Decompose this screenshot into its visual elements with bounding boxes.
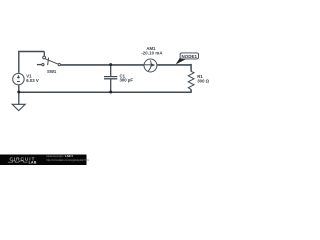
ground xyxy=(12,92,25,110)
wire top middle xyxy=(61,64,144,66)
wire V1 bottom xyxy=(18,85,20,92)
junction node at ground xyxy=(17,91,20,94)
watermark bar xyxy=(0,155,87,166)
junction node at capacitor top xyxy=(109,63,112,66)
wire switch feed vertical xyxy=(43,52,45,56)
wire top-left horizontal xyxy=(18,51,44,53)
capacitor C1 xyxy=(104,65,117,92)
svg-text:SW1: SW1 xyxy=(47,69,57,74)
ammeter AM1 xyxy=(144,59,157,72)
svg-text:6.03 V: 6.03 V xyxy=(26,78,39,83)
svg-text:300 µF: 300 µF xyxy=(120,77,134,82)
svg-text:-20.10 mA: -20.10 mA xyxy=(141,50,162,55)
svg-text:300 Ω: 300 Ω xyxy=(197,79,209,84)
svg-text:NODE1: NODE1 xyxy=(182,54,198,59)
svg-text:LAB: LAB xyxy=(29,160,37,164)
wire bottom horizontal xyxy=(19,91,192,93)
node flag NODE1 pointer xyxy=(176,58,186,65)
svg-text:eleanorpough / LAB 4: eleanorpough / LAB 4 xyxy=(46,154,73,158)
switch SW1 xyxy=(37,56,61,66)
voltage source V1 xyxy=(13,73,25,85)
svg-text:http://circuitlab.com/c/gkb4p4: http://circuitlab.com/c/gkb4p4sh7r5k xyxy=(46,158,90,162)
junction node at capacitor bottom xyxy=(109,91,112,94)
node flag NODE1 box xyxy=(180,53,198,59)
wire right vertical xyxy=(190,64,192,72)
wire resistor bottom xyxy=(190,89,192,92)
ammeter arrow head xyxy=(151,63,155,67)
watermark logo waveform xyxy=(8,161,28,162)
wire V1 top vertical xyxy=(18,52,20,73)
resistor R1 xyxy=(188,71,194,89)
wire top right xyxy=(157,64,191,66)
